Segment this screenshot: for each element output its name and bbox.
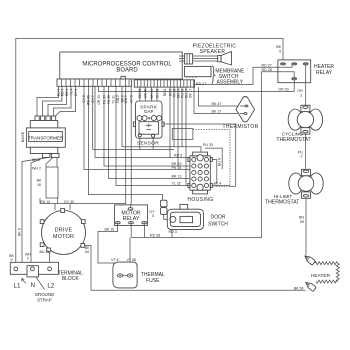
svg-text:BU 6: BU 6: [218, 158, 222, 166]
wire BK 9 top main run L1 to heater relay: [16, 39, 283, 267]
wire YL 32 to housing: [116, 86, 190, 185]
svg-text:PK 35: PK 35: [172, 166, 182, 170]
svg-text:ASSEMBLY: ASSEMBLY: [217, 80, 244, 86]
wire PU 31 stub: [181, 87, 183, 147]
wire RD 28 heater relay to door switch: [132, 72, 278, 238]
wire BU 6 right: [205, 148, 222, 169]
svg-text:BK 54: BK 54: [294, 287, 304, 291]
svg-text:BK: BK: [37, 179, 42, 183]
wire OR 3 relay to cycling thermostat: [305, 65, 307, 106]
svg-text:55: 55: [300, 220, 304, 224]
wire motor relay BK 16 to thermal fuse left: [98, 224, 121, 273]
heater connector bottom: [304, 280, 316, 291]
thermistor RT1: [236, 97, 255, 122]
wire GY 6 stub: [169, 87, 171, 157]
wire transformer bottom BK 9: [22, 158, 48, 263]
svg-text:9: 9: [11, 258, 13, 262]
svg-text:RD 28: RD 28: [150, 233, 160, 237]
svg-text:RD 27: RD 27: [196, 82, 206, 86]
door switch S3: [167, 204, 203, 229]
svg-text:GROUND: GROUND: [35, 292, 55, 297]
svg-text:YL 32: YL 32: [172, 182, 181, 186]
wire housing BU 6: [212, 160, 217, 184]
wire BN 55 hi-limit to heater: [305, 199, 307, 256]
wire sensor pins to board: [140, 87, 157, 101]
thermal fuse F1: [113, 262, 137, 288]
svg-text:VT 58: VT 58: [127, 258, 137, 262]
wire BK 47 to thermistor upper: [199, 87, 241, 106]
wire PU 2 cycling to hi-limit: [304, 134, 306, 169]
svg-text:FUSE: FUSE: [146, 278, 160, 284]
transformer T1: [20, 116, 65, 158]
svg-text:GAP: GAP: [144, 109, 154, 114]
svg-text:BK 9: BK 9: [18, 228, 22, 236]
wire sensor bottom right: [152, 137, 154, 149]
svg-text:16: 16: [37, 183, 41, 187]
svg-text:TRANSFORMER: TRANSFORMER: [28, 135, 64, 140]
wire PK 35 to housing: [84, 86, 190, 169]
svg-text:RELAY: RELAY: [123, 216, 140, 222]
svg-text:DOOR: DOOR: [211, 214, 226, 220]
svg-text:BK 17: BK 17: [188, 88, 192, 97]
wire RD 28 inside relay: [278, 72, 294, 78]
svg-text:WH 51: WH 51: [150, 88, 154, 98]
wire BR 15 to housing: [104, 86, 190, 166]
terminal block TB1: [10, 262, 58, 289]
cycling thermostat S4: [288, 105, 322, 134]
svg-text:RD 6: RD 6: [163, 88, 167, 96]
svg-text:GY 4: GY 4: [74, 88, 78, 96]
hi-limit thermostat S5: [289, 169, 323, 198]
svg-text:PU 33: PU 33: [102, 95, 106, 104]
wire group board to transformer top pins: [37, 86, 58, 116]
svg-text:L1: L1: [14, 282, 21, 289]
svg-text:RELAY: RELAY: [316, 70, 333, 76]
svg-text:BLOCK: BLOCK: [62, 276, 80, 282]
svg-text:BU 24: BU 24: [40, 250, 50, 254]
motor relay K2: [114, 205, 147, 226]
wire TN 35 stub: [173, 87, 175, 147]
svg-text:N: N: [31, 282, 35, 289]
svg-text:BK 47: BK 47: [212, 102, 222, 106]
svg-text:THERMOSTAT: THERMOSTAT: [276, 137, 310, 143]
rotated pin labels under board strip: [56, 88, 192, 105]
wire transformer to harness box: [46, 158, 57, 168]
connector to door switch: [160, 200, 167, 214]
svg-text:RD 3: RD 3: [169, 230, 177, 234]
svg-text:RD 4: RD 4: [60, 88, 64, 96]
connector staple mid: [172, 129, 193, 140]
wire motor relay mid to thermal fuse right: [130, 224, 145, 273]
svg-text:WH 7: WH 7: [124, 95, 128, 103]
heater element R1: [315, 262, 338, 265]
svg-text:BK 50: BK 50: [144, 88, 148, 97]
svg-text:L2: L2: [47, 282, 54, 289]
wire RD 5 to housing: [95, 86, 190, 157]
svg-text:BK 4: BK 4: [214, 182, 222, 186]
board connector strip P1: [57, 76, 195, 87]
wire GY 5 vertical to motor relay: [130, 86, 132, 206]
wire door switch bottom: [171, 230, 173, 238]
svg-text:BK 4: BK 4: [65, 88, 69, 95]
svg-text:THERMISTOR: THERMISTOR: [223, 124, 259, 130]
piezoelectric speaker LS1: [179, 52, 231, 66]
svg-text:BK 16: BK 16: [105, 228, 115, 232]
spark gap and sensor assembly: [134, 101, 165, 138]
svg-text:OR 30: OR 30: [97, 95, 101, 105]
svg-text:RD 27: RD 27: [262, 64, 272, 68]
svg-text:GY 5: GY 5: [130, 95, 134, 103]
svg-text:RD 5: RD 5: [174, 154, 182, 158]
svg-text:GY 30: GY 30: [64, 200, 74, 204]
wire transformer bottom to N: [31, 158, 44, 267]
microprocessor control board U1: [60, 52, 182, 79]
wire BK 17 to thermistor lower: [194, 87, 240, 113]
dotted frame right of housing: [193, 130, 230, 187]
svg-text:HOUSING: HOUSING: [187, 197, 213, 203]
svg-text:BU 52: BU 52: [155, 88, 159, 97]
svg-text:RD 50: RD 50: [138, 88, 142, 98]
svg-text:YL 4: YL 4: [69, 88, 73, 95]
membrane switch assembly S1: [185, 66, 215, 84]
housing connector J3: [188, 152, 212, 194]
wire sensor right tab around housing: [164, 124, 236, 186]
svg-text:WH 2: WH 2: [32, 167, 41, 171]
svg-text:2: 2: [301, 155, 303, 159]
wire housing BK 4: [212, 185, 230, 187]
svg-text:54: 54: [85, 250, 89, 254]
svg-text:PU 33: PU 33: [203, 143, 213, 147]
svg-text:HEATER: HEATER: [311, 273, 331, 279]
svg-text:SPEAKER: SPEAKER: [200, 49, 226, 55]
svg-text:DRIVE: DRIVE: [55, 228, 73, 234]
heater relay K1: [278, 60, 311, 83]
svg-text:3: 3: [300, 93, 302, 97]
drive motor M1: [40, 209, 85, 255]
svg-text:STRAP: STRAP: [37, 298, 52, 303]
wire BK 54 motor to heater: [85, 245, 306, 290]
svg-text:RD 28: RD 28: [262, 68, 272, 72]
wire PU 33 board to housing top: [122, 86, 201, 152]
svg-text:9: 9: [279, 49, 281, 53]
wire 5th to transformer: [56, 86, 76, 116]
svg-text:MICROPROCESSOR CONTROL: MICROPROCESSOR CONTROL: [82, 61, 172, 67]
svg-text:5: 5: [152, 214, 154, 218]
harness junction box BK16: [46, 167, 58, 198]
heater connector top: [303, 254, 315, 265]
svg-text:VT 8: VT 8: [111, 258, 119, 262]
wire BR 13 to housing: [109, 86, 190, 178]
svg-text:GY 5: GY 5: [82, 95, 86, 103]
svg-text:BR 13: BR 13: [172, 175, 182, 179]
svg-text:SENSOR: SENSOR: [137, 140, 159, 146]
wire BU 17 stub: [185, 87, 187, 185]
svg-text:RD 10: RD 10: [40, 200, 50, 204]
svg-text:BOARD: BOARD: [116, 68, 138, 74]
svg-text:2: 2: [27, 257, 29, 261]
wire BU 24 motor to terminal block: [48, 252, 50, 267]
wire OR 30 board to heater relay lower terminal: [98, 80, 294, 92]
svg-text:THERMOSTAT: THERMOSTAT: [265, 200, 299, 206]
wire motor top run RD10 GY30: [40, 85, 126, 211]
svg-text:GY 7: GY 7: [91, 95, 95, 103]
svg-text:BK 9: BK 9: [32, 158, 40, 162]
svg-text:MOTOR: MOTOR: [53, 234, 74, 240]
wire RD 27 board to heater relay: [195, 65, 293, 85]
svg-text:SWITCH: SWITCH: [208, 221, 228, 227]
wire BR 15b stub: [177, 87, 179, 166]
svg-text:YL 31: YL 31: [111, 95, 115, 104]
svg-text:RD 2: RD 2: [116, 95, 120, 103]
wire door switch left to connector: [164, 215, 170, 219]
svg-text:TN 35: TN 35: [107, 95, 111, 104]
svg-text:BK 17: BK 17: [212, 110, 222, 114]
svg-text:BASE: BASE: [20, 131, 25, 142]
wire WH 65 to connector: [88, 86, 162, 200]
wire sensor bottom left run: [93, 86, 174, 149]
svg-text:OR 30: OR 30: [278, 88, 288, 92]
